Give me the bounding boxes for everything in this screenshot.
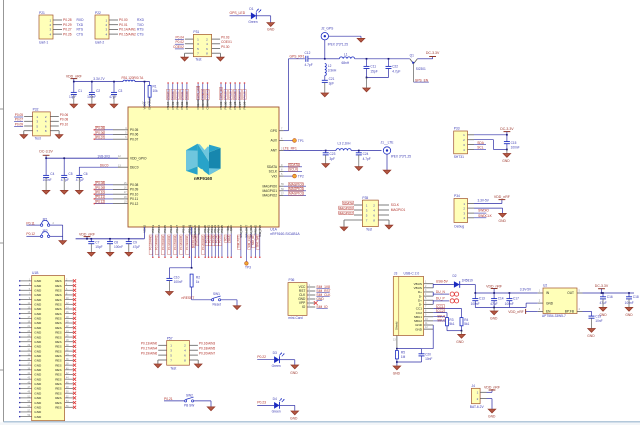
svg-text:RES: RES xyxy=(55,373,61,377)
svg-text:nRESET: nRESET xyxy=(182,296,195,300)
svg-text:RES: RES xyxy=(55,387,61,391)
svg-text:GND: GND xyxy=(488,415,496,419)
svg-text:P0.29: P0.29 xyxy=(228,91,232,99)
svg-text:P0.15/AIN2: P0.15/AIN2 xyxy=(119,32,136,36)
svg-text:GND: GND xyxy=(625,313,633,317)
svg-text:MAGPIO1: MAGPIO1 xyxy=(262,189,277,193)
svg-text:Green: Green xyxy=(272,364,281,368)
svg-text:47µF: 47µF xyxy=(133,245,140,249)
svg-text:D3: D3 xyxy=(273,351,277,355)
svg-text:P0.18/AIN5: P0.18/AIN5 xyxy=(179,235,183,250)
svg-text:GND: GND xyxy=(34,368,42,372)
svg-text:GPS: GPS xyxy=(270,129,277,133)
svg-text:P0.09: P0.09 xyxy=(15,122,24,126)
svg-text:P0.15/AIN2: P0.15/AIN2 xyxy=(161,235,165,250)
svg-text:Uart-1: Uart-1 xyxy=(39,41,48,45)
svg-text:SDA: SDA xyxy=(227,236,231,242)
svg-text:U2: U2 xyxy=(543,284,547,288)
svg-text:5k1: 5k1 xyxy=(464,322,469,326)
svg-text:P0.30: P0.30 xyxy=(221,45,230,49)
svg-text:SW2: SW2 xyxy=(186,393,193,397)
svg-text:COEX2: COEX2 xyxy=(173,45,184,49)
svg-text:MAGPIO0: MAGPIO0 xyxy=(262,184,277,188)
svg-text:P0.17/AIN4: P0.17/AIN4 xyxy=(173,235,177,250)
svg-text:GND: GND xyxy=(34,391,42,395)
svg-text:P0.03: P0.03 xyxy=(221,36,230,40)
svg-text:VIO: VIO xyxy=(272,174,278,178)
svg-text:P35: P35 xyxy=(362,196,368,200)
svg-text:SWDIO: SWDIO xyxy=(478,209,489,213)
svg-text:mini-Card: mini-Card xyxy=(288,316,302,320)
svg-text:C15: C15 xyxy=(511,141,517,145)
svg-text:P0.21: P0.21 xyxy=(164,397,173,401)
svg-text:RES: RES xyxy=(55,359,61,363)
svg-text:SCLK: SCLK xyxy=(269,170,278,174)
svg-text:RTS: RTS xyxy=(137,28,144,32)
svg-text:P0.13/AIN0: P0.13/AIN0 xyxy=(149,235,153,250)
svg-text:R2: R2 xyxy=(196,275,200,279)
svg-text:FB1 120R/0.7A: FB1 120R/0.7A xyxy=(122,76,145,80)
svg-text:P0.03: P0.03 xyxy=(171,91,175,99)
svg-text:P0.29: P0.29 xyxy=(63,23,72,27)
svg-text:P0.04: P0.04 xyxy=(166,91,170,99)
svg-text:P0.08: P0.08 xyxy=(130,183,139,187)
svg-text:P0.13/AIN0: P0.13/AIN0 xyxy=(141,342,158,346)
svg-text:RES: RES xyxy=(55,307,61,311)
svg-text:C24: C24 xyxy=(363,152,369,156)
svg-text:P22: P22 xyxy=(95,11,101,15)
svg-text:GPS_LED: GPS_LED xyxy=(230,11,246,15)
svg-text:GND: GND xyxy=(34,284,42,288)
svg-text:DU_P: DU_P xyxy=(436,297,446,301)
svg-text:P0.23: P0.23 xyxy=(257,401,266,405)
svg-text:RES: RES xyxy=(55,284,61,288)
svg-text:SHT31: SHT31 xyxy=(454,155,464,159)
svg-text:P0.27: P0.27 xyxy=(238,91,242,99)
svg-text:RES: RES xyxy=(55,340,61,344)
svg-text:L2: L2 xyxy=(328,64,332,68)
svg-text:5k1: 5k1 xyxy=(449,322,454,326)
svg-text:P0.26: P0.26 xyxy=(243,91,247,99)
svg-text:SIM_1V8: SIM_1V8 xyxy=(256,235,260,247)
svg-text:Green: Green xyxy=(248,20,257,24)
svg-text:nRF9160: nRF9160 xyxy=(194,176,213,181)
svg-text:SCLK: SCLK xyxy=(391,203,400,207)
svg-text:P0.11: P0.11 xyxy=(130,197,138,201)
svg-text:10k: 10k xyxy=(153,89,159,93)
svg-text:C23: C23 xyxy=(330,152,336,156)
svg-text:DEC0: DEC0 xyxy=(130,165,139,169)
svg-text:P0.26: P0.26 xyxy=(63,32,72,36)
svg-text:P36: P36 xyxy=(289,278,295,282)
svg-text:100nF: 100nF xyxy=(43,178,52,182)
svg-text:P0.10: P0.10 xyxy=(130,192,139,196)
svg-text:GND: GND xyxy=(34,288,42,292)
svg-text:VDD1: VDD1 xyxy=(143,101,147,109)
svg-text:RES: RES xyxy=(55,382,61,386)
svg-text:C17: C17 xyxy=(513,297,519,301)
svg-text:LTE_RF1: LTE_RF1 xyxy=(283,146,297,150)
svg-text:1V8-3V3: 1V8-3V3 xyxy=(97,154,110,158)
svg-text:RES: RES xyxy=(55,331,61,335)
svg-text:TP1: TP1 xyxy=(298,139,304,143)
svg-text:J3: J3 xyxy=(394,272,398,276)
svg-text:D2: D2 xyxy=(453,274,457,278)
svg-text:P0.18/AIN5: P0.18/AIN5 xyxy=(199,347,216,351)
svg-text:3.3V-7V: 3.3V-7V xyxy=(93,77,105,81)
svg-text:Debug: Debug xyxy=(454,224,464,228)
svg-text:DC-3.3V: DC-3.3V xyxy=(39,150,53,154)
svg-text:C22: C22 xyxy=(392,65,398,69)
svg-text:Shield: Shield xyxy=(394,321,398,330)
svg-text:P31: P31 xyxy=(193,30,199,34)
svg-text:GPS_LED: GPS_LED xyxy=(196,86,200,98)
svg-text:DU_N: DU_N xyxy=(436,290,446,294)
svg-text:BP:FB: BP:FB xyxy=(565,310,574,314)
svg-text:68nH: 68nH xyxy=(342,61,350,65)
svg-text:P0.16/AIN3: P0.16/AIN3 xyxy=(167,235,171,250)
svg-text:P0.19/AIN6: P0.19/AIN6 xyxy=(141,352,158,356)
svg-text:SDATA: SDATA xyxy=(343,201,354,205)
svg-text:AUX: AUX xyxy=(270,139,277,143)
svg-text:P0.14/AIN1: P0.14/AIN1 xyxy=(119,28,136,32)
svg-text:nRF9160-SICAB1A: nRF9160-SICAB1A xyxy=(270,232,300,236)
svg-text:100nF: 100nF xyxy=(511,145,520,149)
svg-text:1M: 1M xyxy=(401,355,406,359)
svg-text:RES: RES xyxy=(55,354,61,358)
svg-text:GND: GND xyxy=(34,345,42,349)
svg-text:3.3V-5V: 3.3V-5V xyxy=(520,288,532,292)
svg-text:GND: GND xyxy=(34,396,42,400)
svg-text:100nF: 100nF xyxy=(174,280,183,284)
svg-text:GND: GND xyxy=(34,359,42,363)
svg-text:GND: GND xyxy=(502,159,510,163)
svg-text:TP3: TP3 xyxy=(245,266,251,270)
svg-text:GND: GND xyxy=(290,417,298,421)
svg-text:GND: GND xyxy=(34,303,42,307)
svg-text:C11: C11 xyxy=(370,65,376,69)
svg-text:P33: P33 xyxy=(454,127,460,131)
svg-text:RES: RES xyxy=(55,405,61,409)
svg-text:10nF: 10nF xyxy=(425,357,432,361)
svg-text:P0.04: P0.04 xyxy=(176,36,185,40)
svg-text:TXD: TXD xyxy=(137,23,144,27)
svg-text:P0.19/AIN6: P0.19/AIN6 xyxy=(185,235,189,250)
svg-text:P32: P32 xyxy=(33,108,39,112)
svg-text:MAGPIO1: MAGPIO1 xyxy=(391,208,406,212)
svg-text:GND: GND xyxy=(415,327,423,331)
svg-text:IPEX 3*3*1.25: IPEX 3*3*1.25 xyxy=(328,42,349,46)
svg-text:P0.05: P0.05 xyxy=(15,113,24,117)
svg-text:RXD: RXD xyxy=(137,18,145,22)
svg-text:GND: GND xyxy=(34,349,42,353)
svg-text:IPEX 3*3*1.25: IPEX 3*3*1.25 xyxy=(391,154,412,158)
svg-text:VDD_nRF: VDD_nRF xyxy=(484,386,500,390)
svg-text:RES: RES xyxy=(55,312,61,316)
svg-text:P0.08: P0.08 xyxy=(60,118,69,122)
svg-text:C4: C4 xyxy=(50,172,54,176)
svg-text:MAGPIO2: MAGPIO2 xyxy=(262,194,277,198)
svg-text:GND: GND xyxy=(290,371,298,375)
svg-text:GND: GND xyxy=(34,331,42,335)
svg-text:P0.07: P0.07 xyxy=(130,137,139,141)
svg-text:GND: GND xyxy=(393,372,401,376)
svg-text:GPS_EN: GPS_EN xyxy=(219,88,223,99)
svg-text:SI2301: SI2301 xyxy=(416,67,426,71)
svg-text:GND: GND xyxy=(34,317,42,321)
svg-text:DC-3.3V: DC-3.3V xyxy=(426,51,440,55)
svg-text:D1: D1 xyxy=(249,7,253,11)
svg-text:SIM_RST: SIM_RST xyxy=(237,236,241,248)
svg-text:C21: C21 xyxy=(329,77,335,81)
svg-text:GND: GND xyxy=(546,301,554,305)
svg-text:GND: GND xyxy=(587,334,595,338)
svg-text:VDD_nRF: VDD_nRF xyxy=(79,233,95,237)
svg-text:GND: GND xyxy=(34,387,42,391)
svg-text:CTS: CTS xyxy=(77,32,84,36)
svg-text:GND: GND xyxy=(34,410,42,414)
svg-text:P0.12: P0.12 xyxy=(130,202,139,206)
svg-text:GND: GND xyxy=(456,340,464,344)
svg-text:CTS: CTS xyxy=(137,32,144,36)
svg-text:SDATA: SDATA xyxy=(267,165,278,169)
svg-text:APT554-33W5-7: APT554-33W5-7 xyxy=(542,314,566,318)
svg-text:C14: C14 xyxy=(498,297,504,301)
svg-text:4.7µF: 4.7µF xyxy=(76,178,84,182)
svg-text:P0.30: P0.30 xyxy=(224,91,228,99)
svg-text:GND: GND xyxy=(34,298,42,302)
svg-text:Test: Test xyxy=(195,57,201,61)
svg-text:SWDIO: SWDIO xyxy=(195,235,199,245)
svg-text:RES: RES xyxy=(55,326,61,330)
svg-text:ANT: ANT xyxy=(271,149,277,153)
svg-text:P0.22: P0.22 xyxy=(257,355,266,359)
svg-text:4.7µF: 4.7µF xyxy=(392,70,400,74)
svg-text:MAGPIO0: MAGPIO0 xyxy=(338,206,353,210)
svg-text:RTS: RTS xyxy=(77,28,84,32)
svg-text:P0.16/AIN3: P0.16/AIN3 xyxy=(199,342,216,346)
svg-text:P0.12: P0.12 xyxy=(26,232,35,236)
svg-text:Uart-2: Uart-2 xyxy=(95,41,104,45)
svg-text:3.9nH: 3.9nH xyxy=(328,68,337,72)
svg-text:C13: C13 xyxy=(479,297,485,301)
svg-text:4.7pF: 4.7pF xyxy=(363,157,371,161)
svg-text:C20: C20 xyxy=(425,352,431,356)
svg-text:RES: RES xyxy=(55,303,61,307)
svg-text:L3 2.2nH: L3 2.2nH xyxy=(338,141,352,145)
svg-text:Test: Test xyxy=(170,366,176,370)
svg-text:J2_GPS: J2_GPS xyxy=(321,26,334,30)
svg-text:P0.09: P0.09 xyxy=(130,188,139,192)
svg-text:GND: GND xyxy=(34,401,42,405)
svg-text:RES: RES xyxy=(55,345,61,349)
svg-text:P34: P34 xyxy=(454,194,460,198)
svg-text:J1__LTE: J1__LTE xyxy=(381,141,395,145)
svg-text:P0.17/AIN4: P0.17/AIN4 xyxy=(141,347,158,351)
svg-text:3.3V-5V: 3.3V-5V xyxy=(478,198,490,202)
svg-text:GND: GND xyxy=(34,377,42,381)
svg-text:BAT-6.2V: BAT-6.2V xyxy=(470,405,485,409)
svg-text:RES: RES xyxy=(55,396,61,400)
svg-text:EN: EN xyxy=(546,310,551,314)
svg-text:4.7pF: 4.7pF xyxy=(305,63,313,67)
svg-text:L1: L1 xyxy=(344,53,348,57)
svg-text:P0.01: P0.01 xyxy=(119,23,128,27)
svg-text:VDD_GPIO: VDD_GPIO xyxy=(130,156,147,160)
svg-text:TXD: TXD xyxy=(77,23,84,27)
svg-text:RES: RES xyxy=(55,377,61,381)
svg-text:3pF: 3pF xyxy=(330,157,336,161)
svg-text:C8: C8 xyxy=(114,241,118,245)
svg-text:SW1: SW1 xyxy=(213,292,220,296)
svg-text:GND: GND xyxy=(34,335,42,339)
svg-text:Q1: Q1 xyxy=(410,53,414,57)
svg-text:15pF: 15pF xyxy=(370,70,377,74)
svg-text:GND: GND xyxy=(34,307,42,311)
svg-text:Green: Green xyxy=(272,410,281,414)
svg-text:GND: GND xyxy=(34,340,42,344)
svg-text:C3: C3 xyxy=(118,89,122,93)
svg-text:GND: GND xyxy=(34,363,42,367)
svg-text:VDD_nRF: VDD_nRF xyxy=(66,75,82,79)
svg-text:RES: RES xyxy=(55,401,61,405)
svg-text:P0.20/AIN7: P0.20/AIN7 xyxy=(199,352,216,356)
svg-text:10nF: 10nF xyxy=(595,319,602,323)
svg-text:4.7µF: 4.7µF xyxy=(61,178,69,182)
svg-text:13pF: 13pF xyxy=(69,95,76,99)
svg-text:RES: RES xyxy=(55,288,61,292)
svg-text:P0.07: P0.07 xyxy=(15,118,24,122)
svg-text:C12: C12 xyxy=(305,51,311,55)
svg-text:RES: RES xyxy=(55,293,61,297)
svg-text:COEX1: COEX1 xyxy=(221,40,232,44)
svg-text:C2: C2 xyxy=(96,89,100,93)
svg-text:C10: C10 xyxy=(174,276,180,280)
svg-text:GND: GND xyxy=(34,415,42,419)
svg-text:Test: Test xyxy=(35,137,41,141)
svg-text:P0.25: P0.25 xyxy=(218,235,222,243)
svg-text:P57: P57 xyxy=(167,336,173,340)
svg-text:RES: RES xyxy=(55,349,61,353)
svg-text:1k: 1k xyxy=(196,280,200,284)
svg-text:C19: C19 xyxy=(595,315,601,319)
svg-text:RES: RES xyxy=(55,368,61,372)
svg-text:C6: C6 xyxy=(84,172,88,176)
svg-text:DEC0: DEC0 xyxy=(100,163,109,167)
svg-text:GND: GND xyxy=(34,321,42,325)
svg-text:RES: RES xyxy=(55,335,61,339)
svg-text:C5: C5 xyxy=(68,172,72,176)
svg-text:GND: GND xyxy=(490,316,498,320)
svg-text:P0.00: P0.00 xyxy=(119,18,128,22)
svg-text:GND: GND xyxy=(34,354,42,358)
svg-text:SCL: SCL xyxy=(477,146,483,150)
svg-text:RES: RES xyxy=(55,391,61,395)
svg-text:C18: C18 xyxy=(633,295,639,299)
svg-text:P0.06: P0.06 xyxy=(130,133,139,137)
svg-text:RES: RES xyxy=(55,317,61,321)
svg-text:PB SW: PB SW xyxy=(184,404,194,408)
svg-text:P0.28: P0.28 xyxy=(233,91,237,99)
svg-text:SWDCLK: SWDCLK xyxy=(478,214,493,218)
svg-text:GND: GND xyxy=(34,279,42,283)
svg-text:D4: D4 xyxy=(273,397,277,401)
svg-text:P0.02: P0.02 xyxy=(176,91,180,99)
svg-text:GPS_RF1: GPS_RF1 xyxy=(290,55,305,59)
svg-text:100nF: 100nF xyxy=(114,245,123,249)
svg-text:MAGPIO2: MAGPIO2 xyxy=(338,211,353,215)
svg-text:COEX2: COEX2 xyxy=(206,89,210,99)
svg-text:DC-3.3V: DC-3.3V xyxy=(500,127,514,131)
svg-text:VDD_nRF: VDD_nRF xyxy=(486,284,502,288)
svg-text:GND: GND xyxy=(499,219,507,223)
svg-text:RES: RES xyxy=(55,279,61,283)
svg-text:Test: Test xyxy=(366,228,372,232)
svg-text:P0.06: P0.06 xyxy=(60,113,69,117)
svg-text:Reset: Reset xyxy=(213,303,221,307)
svg-text:GND: GND xyxy=(34,382,42,386)
svg-text:VDD_nRF: VDD_nRF xyxy=(494,195,510,199)
svg-text:P0.02: P0.02 xyxy=(176,40,185,44)
svg-text:RES: RES xyxy=(55,321,61,325)
svg-text:RXD: RXD xyxy=(77,18,85,22)
svg-text:P0.10: P0.10 xyxy=(60,122,69,126)
svg-text:USB-C 2.0: USB-C 2.0 xyxy=(404,272,420,276)
svg-text:SDA: SDA xyxy=(477,141,484,145)
svg-text:GND: GND xyxy=(34,326,42,330)
svg-text:RES: RES xyxy=(55,298,61,302)
svg-text:C7: C7 xyxy=(95,241,99,245)
svg-text:C9: C9 xyxy=(133,241,137,245)
svg-text:47µF: 47µF xyxy=(109,95,116,99)
svg-text:P0.28: P0.28 xyxy=(63,18,72,22)
svg-text:C16: C16 xyxy=(607,295,613,299)
svg-text:P0.14/AIN1: P0.14/AIN1 xyxy=(155,235,159,250)
svg-text:COEX1: COEX1 xyxy=(201,89,205,99)
svg-text:J4: J4 xyxy=(472,384,476,388)
svg-text:P0.01: P0.01 xyxy=(180,91,184,99)
svg-text:OUT: OUT xyxy=(567,291,574,295)
svg-text:GND: GND xyxy=(34,373,42,377)
svg-text:U1B: U1B xyxy=(32,271,39,275)
svg-text:ENABLE: ENABLE xyxy=(148,98,152,110)
svg-text:P0.27: P0.27 xyxy=(63,28,72,32)
svg-text:GND: GND xyxy=(34,405,42,409)
svg-text:DC-3.3V: DC-3.3V xyxy=(595,284,609,288)
svg-text:GND: GND xyxy=(34,293,42,297)
svg-text:P21: P21 xyxy=(39,11,45,15)
svg-text:1N5819: 1N5819 xyxy=(462,279,473,283)
svg-text:RES: RES xyxy=(55,363,61,367)
svg-text:GND: GND xyxy=(267,28,275,32)
svg-text:TP2: TP2 xyxy=(298,175,304,179)
svg-text:C1: C1 xyxy=(78,89,82,93)
svg-text:VDD_nRF: VDD_nRF xyxy=(508,310,523,314)
svg-text:GND: GND xyxy=(34,312,42,316)
svg-text:P0.00: P0.00 xyxy=(185,91,189,99)
svg-text:15pF: 15pF xyxy=(95,245,102,249)
svg-text:U1A: U1A xyxy=(270,228,277,232)
svg-text:USB-5V: USB-5V xyxy=(436,279,449,283)
svg-text:IO: IO xyxy=(302,305,306,309)
svg-text:P0.05: P0.05 xyxy=(130,128,139,132)
svg-text:3pF: 3pF xyxy=(329,81,335,85)
